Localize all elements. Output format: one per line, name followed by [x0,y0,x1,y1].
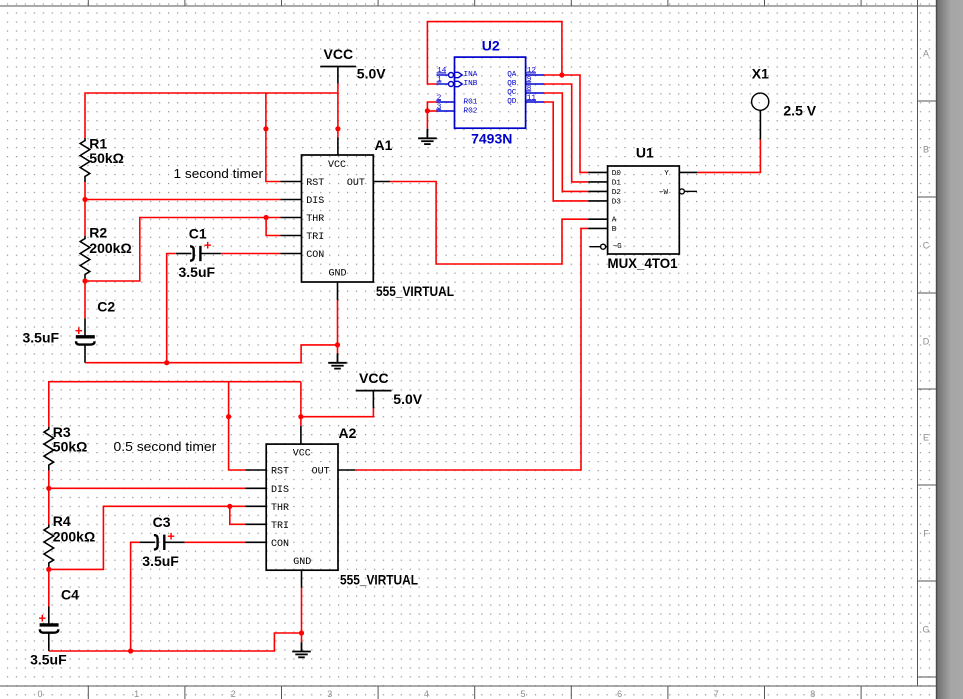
svg-text:3.5uF: 3.5uF [30,652,67,668]
resistor R1 50k [80,135,124,182]
svg-text:0.5 second timer: 0.5 second timer [114,439,218,454]
op 555 A2 [266,444,338,570]
junction A2 THR node [46,567,51,572]
svg-text:GND: GND [293,557,311,568]
svg-text:RST: RST [271,467,289,478]
svg-text:1: 1 [437,76,442,84]
wire top rail bottom circuit [49,382,301,427]
svg-text:2: 2 [231,689,236,699]
junction C1 branch [164,360,169,365]
svg-text:50kΩ: 50kΩ [53,439,88,455]
wire A2 TRI [230,506,266,524]
svg-text:555_VIRTUAL: 555_VIRTUAL [376,283,454,299]
wire U2 reset pins to ground [427,102,436,129]
svg-text:~W: ~W [659,189,669,197]
junction on VCC stem [335,126,340,131]
wire QD to U1 D3 [544,102,608,201]
pin 12 QA stub [526,74,544,76]
wire rail to A2 RST [229,382,267,470]
svg-text:DIS: DIS [306,196,324,207]
svg-text:7: 7 [714,689,719,699]
capacitor C2 3.5uF [23,298,116,362]
svg-text:R02: R02 [464,108,478,116]
svg-text:8: 8 [810,689,815,699]
svg-text:3: 3 [327,689,332,699]
power VCC1 [320,46,356,93]
svg-text:E: E [923,433,929,443]
svg-text:THR: THR [271,503,289,514]
svg-text:R4: R4 [53,513,71,529]
svg-text:U1: U1 [636,145,654,161]
svg-text:R2: R2 [89,224,107,240]
resistor R3 50k [44,424,87,471]
resistor R4 200k [44,513,95,569]
capacitor C4 3.5uF [30,587,79,668]
wire R3 to R4 (DIS node) [48,471,50,525]
junction on A2 RST riser [226,414,231,419]
svg-text:QC: QC [507,89,517,97]
svg-text:~G: ~G [613,243,623,251]
wire QB to U1 D1 [544,84,608,182]
right ruler strip [918,0,937,686]
wire R4 to C4 [48,569,50,607]
pin 11 QD stub [526,101,544,103]
junction A2 DIS node [46,486,51,491]
svg-text:5.0V: 5.0V [393,391,422,407]
app background outside sheet [937,0,963,699]
wire A2 THR [49,506,266,569]
junction A2 gnd [299,630,304,635]
wire QA to U1 D0 [544,75,608,172]
wire DIS [85,199,302,201]
svg-text:RST: RST [306,178,324,189]
svg-text:12: 12 [527,67,537,75]
svg-text:555_VIRTUAL: 555_VIRTUAL [340,571,418,587]
svg-text:3.5uF: 3.5uF [142,553,179,569]
wire bottom rail (C2/C1/A1 gnd) [85,345,338,363]
svg-text:THR: THR [306,214,324,225]
wire A1 GND pin [337,282,339,354]
junction DIS node [82,197,87,202]
svg-text:A: A [612,217,617,225]
ground U2 [418,129,437,144]
wire R1 to R2 (DIS node) [84,182,86,236]
wire rail to A2 VCC pin [300,382,302,444]
svg-text:D0: D0 [612,170,622,178]
wire TRI [266,218,301,236]
svg-text:D3: D3 [612,198,622,206]
svg-text:+: + [39,611,47,626]
wire VCC1 to A1 VCC pin [337,93,339,155]
wire rail to RST [266,93,302,182]
counter U2 7493N [455,57,526,128]
svg-text:+: + [204,238,212,253]
wire A2 OUT to U1 B select [338,228,608,470]
mux U1 MUX_4TO1 [608,166,680,254]
pin 8 QC stub [526,92,544,94]
svg-text:+: + [75,323,83,338]
svg-text:A2: A2 [339,425,357,441]
svg-text:R1: R1 [89,135,107,151]
ground A2 [292,642,311,657]
svg-text:R3: R3 [53,424,71,440]
top ruler strip [0,0,937,6]
pin ~W stub with bubble [679,189,697,194]
junction on RST riser [263,126,268,131]
probe X1 [752,66,770,111]
svg-text:U2: U2 [482,38,500,54]
capacitor C1 3.5uF [176,225,221,280]
wire QC to U1 D2 [544,93,608,191]
svg-text:14: 14 [437,67,447,75]
wire U1 Y to probe X1 [679,110,760,172]
junction THR/TRI tie [264,215,269,220]
svg-text:OUT: OUT [312,467,330,478]
svg-text:D1: D1 [612,179,622,187]
svg-text:MUX_4TO1: MUX_4TO1 [608,255,678,271]
svg-text:+: + [167,529,175,544]
svg-text:VCC: VCC [293,449,311,460]
wire C1 to ground rail [167,254,176,363]
svg-text:INB: INB [464,80,478,88]
wire C3 to ground rail [131,542,140,651]
junction THR node [82,278,87,283]
svg-text:DIS: DIS [271,485,289,496]
svg-text:B: B [612,226,617,234]
wire QA feedback to INB [427,22,562,84]
svg-text:2: 2 [437,94,442,102]
svg-text:VCC: VCC [324,46,354,62]
junction A2 VCC node [298,414,303,419]
pin 3 R02 stub [437,110,455,112]
svg-text:3.5uF: 3.5uF [179,264,216,280]
svg-text:4: 4 [424,689,429,699]
power VCC2 [301,370,392,417]
svg-text:D2: D2 [612,189,622,197]
svg-text:C4: C4 [61,587,79,603]
svg-text:8: 8 [527,85,532,93]
svg-text:INA: INA [464,71,478,79]
svg-text:A1: A1 [375,137,393,153]
wire A2 DIS [49,487,266,489]
svg-text:QB: QB [507,80,517,88]
svg-text:VCC: VCC [359,370,389,386]
svg-text:200kΩ: 200kΩ [89,240,131,256]
svg-text:QD: QD [507,98,517,106]
capacitor C3 3.5uF [140,514,185,569]
junction A2 THR/TRI tie [227,504,232,509]
svg-text:7493N: 7493N [471,131,512,147]
svg-text:TRI: TRI [306,232,324,243]
svg-text:200kΩ: 200kΩ [53,529,95,545]
svg-text:6: 6 [617,689,622,699]
pin 14 INA stub with clock bubble [437,72,463,77]
junction QA node [559,72,564,77]
svg-text:D: D [923,337,930,347]
svg-text:2.5 V: 2.5 V [783,103,816,119]
wire A2 CON [185,541,266,543]
junction C3 branch [128,648,133,653]
wire A1 OUT to U1 A select [373,182,607,265]
svg-text:X1: X1 [752,66,769,82]
svg-text:OUT: OUT [347,178,365,189]
svg-text:TRI: TRI [271,521,289,532]
svg-text:QA: QA [507,71,517,79]
svg-text:CON: CON [271,539,289,550]
svg-text:A: A [923,49,929,59]
ground A1 [328,354,347,369]
wire CON [221,253,302,255]
svg-text:5: 5 [520,689,525,699]
wire VCC1 top rail [85,93,338,138]
svg-text:GND: GND [329,269,347,280]
svg-text:1 second timer: 1 second timer [174,166,264,181]
svg-text:G: G [922,625,929,635]
junction R02 node [425,108,430,113]
wire THR [85,218,302,282]
svg-text:B: B [923,145,929,155]
svg-text:C2: C2 [97,298,115,314]
op 555 A1 [302,155,374,282]
pin 1 INB stub with clock bubble [437,81,463,86]
svg-text:VCC: VCC [328,160,346,171]
svg-text:11: 11 [527,94,537,102]
wire A2 GND pin [301,570,303,642]
svg-text:C3: C3 [153,514,171,530]
svg-text:R01: R01 [464,99,478,107]
pin 9 QB stub [526,83,544,85]
pin 2 R01 stub [437,101,455,103]
svg-text:1: 1 [134,689,139,699]
wire bottom rail (C4/C3/A2 gnd) [49,633,302,651]
svg-text:Y: Y [664,170,669,178]
pin ~G stub with bubble [590,244,608,249]
svg-text:3.5uF: 3.5uF [23,330,60,346]
resistor R2 200k [80,224,131,280]
svg-text:3: 3 [437,103,442,111]
svg-text:5.0V: 5.0V [357,66,386,82]
svg-text:50kΩ: 50kΩ [89,150,124,166]
svg-text:0: 0 [37,689,42,699]
wire R2 to C2 [84,280,86,318]
svg-text:C: C [923,241,930,251]
bottom ruler strip [0,686,937,699]
svg-text:CON: CON [306,250,324,261]
junction A1 gnd [335,342,340,347]
svg-text:F: F [923,529,929,539]
svg-text:9: 9 [527,76,532,84]
